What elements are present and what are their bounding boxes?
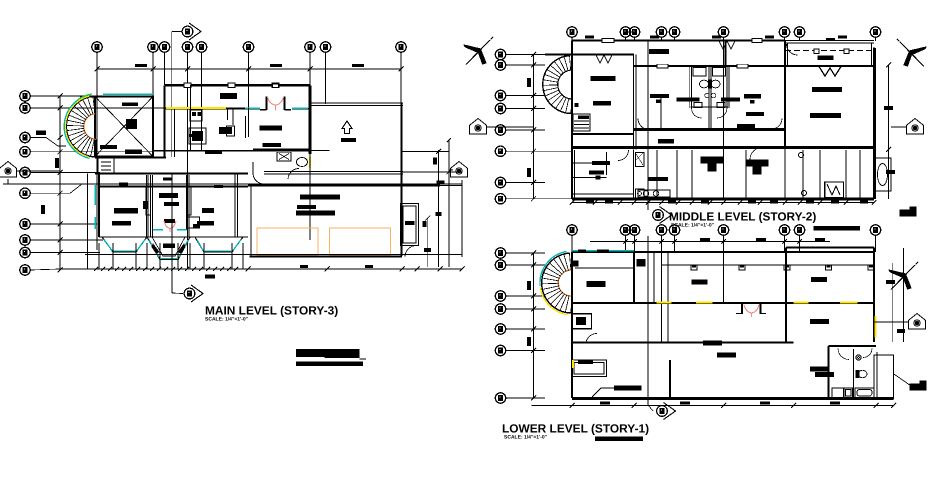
svg-text:SCALE: 1/4"=1'-0": SCALE: 1/4"=1'-0" bbox=[504, 435, 548, 441]
svg-text:SCALE: 1/4"=1'-0": SCALE: 1/4"=1'-0" bbox=[205, 317, 249, 323]
svg-text:LOWER LEVEL (STORY-1): LOWER LEVEL (STORY-1) bbox=[502, 422, 649, 436]
svg-text:MAIN LEVEL (STORY-3): MAIN LEVEL (STORY-3) bbox=[205, 304, 338, 318]
svg-text:MIDDLE LEVEL (STORY-2): MIDDLE LEVEL (STORY-2) bbox=[669, 210, 816, 224]
